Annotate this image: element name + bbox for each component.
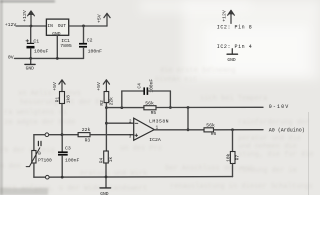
wire R7 top lead (232, 130, 234, 152)
capacitor C3 (58, 135, 68, 177)
svg-text:rainforderung der: rainforderung der (238, 119, 309, 127)
wire R6 to A0 output (214, 129, 264, 131)
wire inverting node to R5 (106, 107, 143, 109)
wire output riser down (187, 108, 189, 130)
net label A0 (Arduino) (269, 128, 305, 134)
svg-text:GND: GND (227, 57, 236, 63)
value 7805 (60, 43, 72, 49)
svg-text:findung der im: findung der im (238, 167, 297, 175)
junction output riser (187, 106, 190, 109)
value 100uF (34, 49, 49, 55)
label R4 (vertical) (99, 157, 105, 163)
junction C1 / 0V (29, 57, 32, 60)
value 1k (R4, vertical) (108, 157, 114, 163)
junction IC1 GND / 0V (56, 57, 59, 60)
svg-text:R7: R7 (235, 155, 241, 161)
svg-text:0V: 0V (8, 54, 14, 60)
label IC1 (61, 38, 70, 44)
supply +12V arrow (28, 11, 35, 26)
svg-text:R3: R3 (85, 138, 91, 144)
regulator IC1 7805 box (46, 19, 68, 37)
svg-text:1k8: 1k8 (65, 95, 71, 104)
svg-text:C1: C1 (33, 38, 39, 44)
capacitor C2 (79, 26, 87, 59)
label theta (38, 151, 41, 157)
svg-text:C3: C3 (65, 145, 71, 151)
net label 0-10V (269, 104, 290, 110)
svg-text:1k: 1k (108, 157, 114, 163)
wire ground rail (bottom) (34, 176, 233, 179)
supply +12V vertical label (22, 10, 28, 22)
node T wire: PT100 top / R1 / R3 (34, 135, 78, 151)
wire C1 bottom to 0V rail (30, 48, 32, 58)
wire op-amp output (154, 129, 204, 131)
resistor R3 (78, 133, 90, 137)
svg-text:nivean eit: nivean eit (155, 76, 197, 84)
label C1 (33, 38, 39, 44)
value 100nF (C4, vertical) (148, 79, 154, 93)
supply +5V vertical label (R2) (96, 82, 102, 91)
op-amp IC2A triangle (134, 118, 155, 140)
svg-text:R4: R4 (99, 157, 105, 163)
resistor R1 (60, 92, 65, 104)
junction R7 tap (231, 128, 234, 131)
ground symbol (left) (25, 58, 35, 71)
net label +12V (5, 22, 17, 28)
svg-text:22k: 22k (108, 97, 114, 106)
svg-text:+5V: +5V (96, 82, 102, 91)
pin number 1 (156, 127, 159, 131)
svg-text:0-10V: 0-10V (269, 104, 290, 110)
terminal circle (PT100 bottom) (46, 175, 50, 179)
svg-text:rb der etneig: rb der etneig (0, 147, 55, 155)
faint page edge line (308, 112, 310, 195)
svg-text:100nF: 100nF (88, 48, 103, 54)
value 1k8 (65, 95, 71, 104)
wire R1 bottom to node T (61, 104, 63, 135)
junction node T (61, 133, 64, 136)
svg-text:IC2: Pin 4: IC2: Pin 4 (217, 44, 253, 50)
supply +12V vertical label (right) (222, 10, 228, 22)
value 56k (R6) (206, 122, 215, 128)
label C3 (65, 145, 71, 151)
label LM358N (149, 118, 169, 124)
svg-text:R6: R6 (211, 131, 217, 137)
svg-text:C2: C2 (87, 37, 93, 43)
svg-text:sich bei Tempera: sich bei Tempera (200, 95, 267, 103)
note IC2: Pin 8 (217, 25, 253, 31)
svg-text:22k: 22k (82, 127, 91, 133)
svg-text:renauslastung in dieser Schalt: renauslastung in dieser Schaltungs (170, 183, 313, 191)
junction C4 right riser (169, 106, 172, 109)
svg-text:56k: 56k (206, 122, 215, 128)
svg-text:7805: 7805 (60, 43, 72, 49)
svg-text:+12V: +12V (222, 10, 228, 22)
svg-text:stung, die fur die: stung, die fur die (238, 151, 314, 159)
svg-text:m den: m den (0, 163, 21, 171)
svg-text:und nehmen die: und nehmen die (238, 143, 297, 151)
svg-text:100uF: 100uF (34, 49, 49, 55)
svg-text:56k: 56k (145, 100, 154, 106)
wire R5 to 0-10V output (156, 106, 263, 108)
wire IC1 OUT to +5V elbow (69, 25, 107, 27)
label R7 (vertical) (235, 155, 241, 161)
junction R4 / rail (105, 176, 108, 179)
wire R7 bottom to rail (232, 164, 234, 177)
junction C3 / rail (61, 176, 64, 179)
label C2 (87, 37, 93, 43)
wire PT100 bottom to rail (33, 163, 35, 177)
svg-text:LM358N: LM358N (149, 118, 169, 124)
svg-text:OUT: OUT (58, 23, 67, 29)
label C4 (vertical) (136, 83, 142, 89)
svg-text:un des Pro: un des Pro (120, 145, 162, 153)
svg-text:A0 (Arduino): A0 (Arduino) (269, 128, 305, 134)
supply +5V arrow (R1) (59, 80, 65, 92)
capacitor C1 (polarized) (26, 40, 35, 49)
wire +12V input to IC1 IN (16, 25, 46, 27)
wire C4 left riser (121, 91, 123, 108)
junction R2 / feedback line (105, 106, 108, 109)
svg-text:+12V: +12V (22, 10, 28, 22)
value 22k (R2) (108, 97, 114, 106)
svg-text:+5V: +5V (52, 82, 58, 91)
wire +12V node to C1 (30, 26, 32, 43)
sensor PT100 (26, 141, 41, 166)
svg-text:+12V: +12V (5, 22, 17, 28)
ghost bleed-through text (0, 67, 314, 193)
svg-text:PT100: PT100 (38, 157, 52, 163)
wire R3 to pin3 (crosses inverting column, no junction) (90, 134, 134, 136)
label R2 (99, 100, 105, 106)
resistor R4 (104, 151, 109, 163)
svg-text:ra wenlgtens ei: ra wenlgtens ei (4, 109, 67, 117)
svg-text:zm adgtm der Ende: zm adgtm der Ende (4, 119, 75, 127)
svg-text:R1: R1 (54, 97, 60, 103)
label R5 (151, 110, 157, 116)
value 56k (R5) (145, 100, 154, 106)
supply +5V arrow (R2) (103, 80, 109, 92)
svg-text:GND: GND (26, 66, 35, 72)
junction C4 left riser (120, 106, 123, 109)
svg-text:+5V: +5V (97, 14, 103, 23)
junction inverting input (105, 122, 108, 125)
junction +12V node (30, 25, 33, 28)
svg-text:GND: GND (100, 191, 109, 195)
pin number 2 (129, 121, 132, 125)
svg-text:R2: R2 (99, 100, 105, 106)
ground symbol (bottom) (100, 188, 111, 197)
wire R2 bottom down inverting column (105, 103, 107, 151)
value 100nF (C2) (88, 48, 103, 54)
resistor R2 (104, 92, 109, 103)
pin number 3 (129, 135, 132, 139)
net label 0V (8, 54, 14, 60)
resistor R7 (230, 152, 235, 164)
label R1 (54, 97, 60, 103)
label IC2A (149, 137, 161, 143)
note IC2: Pin 4 (217, 44, 253, 50)
svg-text:ϑ: ϑ (38, 151, 41, 157)
resistor R5 (144, 106, 156, 110)
wire C4 right riser (169, 91, 171, 108)
svg-text:C4: C4 (136, 83, 142, 89)
capacitor C4 (143, 87, 148, 95)
resistor R6 (204, 128, 214, 132)
terminal circle (PT100 top) (45, 133, 49, 137)
wire 0V rail (15, 57, 84, 59)
label PT100 (38, 157, 52, 163)
svg-text:GND: GND (52, 31, 61, 37)
svg-text:IC1: IC1 (61, 38, 70, 44)
wire C4 top right lead (148, 90, 170, 92)
supply +5V vertical label (R1) (52, 82, 58, 91)
junction C2 node (82, 25, 85, 28)
wire pin4 to ground (231, 49, 233, 54)
wire IC1 GND pin (56, 35, 58, 58)
value 100nF (C3) (65, 157, 80, 163)
svg-text:IC2A: IC2A (149, 137, 161, 143)
junction output riser / output wire (187, 128, 190, 131)
ground symbol (right) (227, 54, 237, 63)
wire pin2 inverting input (106, 122, 133, 124)
supply +12V arrow (right) (228, 10, 235, 23)
svg-text:wert anfgang, u der Widerstand: wert anfgang, u der Widerstandswert (0, 185, 147, 193)
svg-text:10k: 10k (225, 153, 231, 162)
svg-text:IN: IN (47, 23, 53, 29)
label R6 (211, 131, 217, 137)
supply +5V vertical label (top) (97, 14, 103, 23)
wire R4 bottom / GND stub (105, 163, 107, 188)
svg-text:peratur und die: peratur und die (238, 135, 301, 143)
svg-text:xn Aelis--ganvs: xn Aelis--ganvs (18, 90, 81, 98)
supply +5V arrow (top) (104, 13, 110, 26)
svg-text:die erste Sdlnemng: die erste Sdlnemng (160, 67, 236, 75)
svg-text:100nF: 100nF (65, 157, 80, 163)
value 22k (R3) (82, 127, 91, 133)
svg-text:IC2: Pin 8: IC2: Pin 8 (217, 25, 253, 31)
label R3 (85, 138, 91, 144)
value 10k (R7, vertical) (225, 153, 231, 162)
svg-text:R5: R5 (151, 110, 157, 116)
wire C4 top left lead (122, 90, 144, 92)
